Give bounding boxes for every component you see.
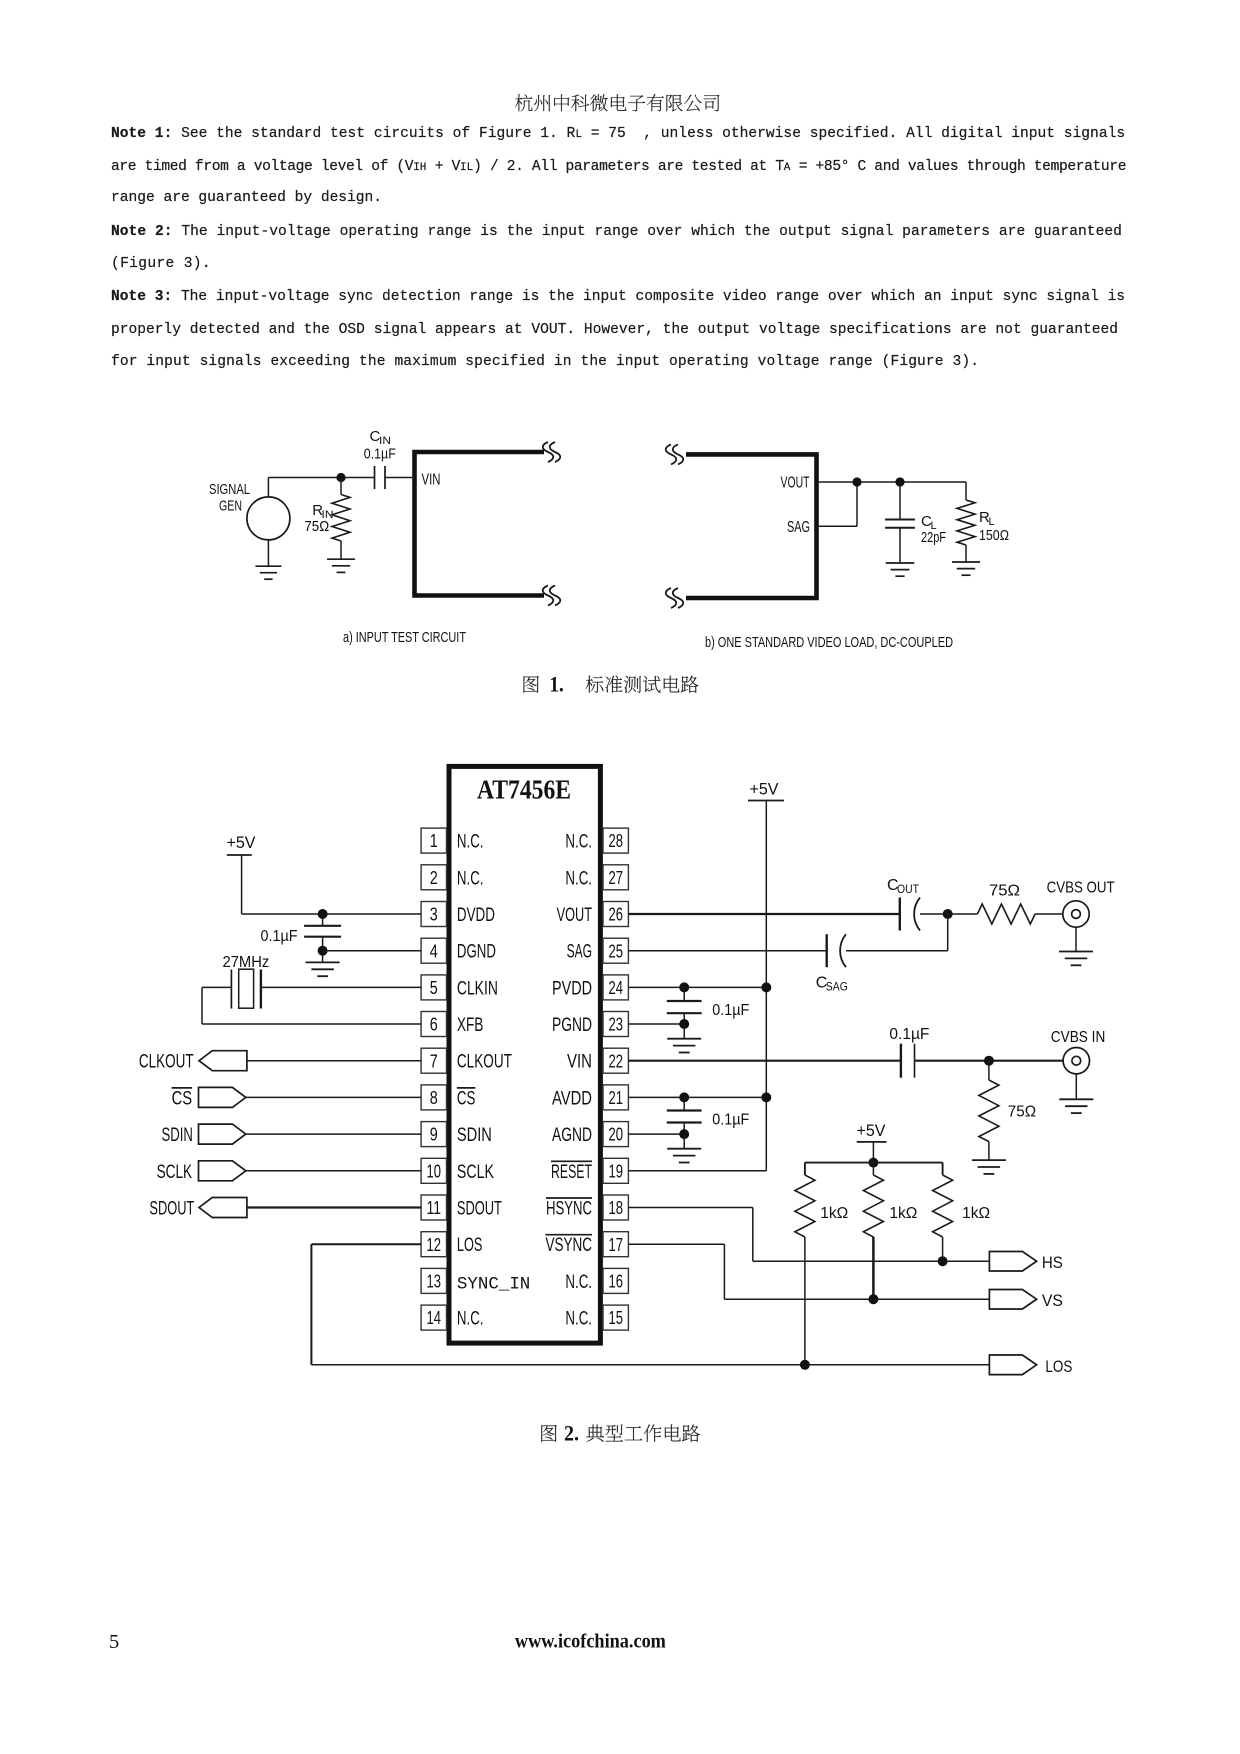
svg-text:SDIN: SDIN <box>457 1125 492 1146</box>
ground (AGND) <box>667 1134 701 1162</box>
svg-text:N.C.: N.C. <box>457 832 484 853</box>
figure 1 caption text <box>586 675 699 692</box>
svg-text:5: 5 <box>109 1631 119 1653</box>
power +5V (top right) <box>748 780 784 1171</box>
node VS junction <box>868 1294 878 1304</box>
ground (DGND decoupling) <box>306 951 340 977</box>
svg-text:SAG: SAG <box>567 942 592 963</box>
svg-text:75Ω: 75Ω <box>304 518 329 535</box>
svg-text:22: 22 <box>608 1050 623 1071</box>
label 1k ohm R3 <box>962 1205 990 1222</box>
svg-text:SAG: SAG <box>826 980 848 994</box>
figure 1 caption hanzi 图 <box>523 676 538 693</box>
IC outline (partial, test circuit b) <box>686 454 817 598</box>
svg-text:23: 23 <box>608 1014 623 1035</box>
pin 28 box <box>603 828 628 853</box>
ground (CL) <box>886 563 915 576</box>
wire SAG <box>819 482 857 526</box>
svg-text:2.: 2. <box>564 1421 579 1446</box>
pin 23 label PGND <box>552 1015 592 1036</box>
wire pin24 PVDD to +5V <box>628 986 766 988</box>
pin 24 box <box>603 975 628 1000</box>
svg-text:N.C.: N.C. <box>457 1309 484 1330</box>
wire pull-up rail <box>805 1163 943 1175</box>
svg-text:18: 18 <box>608 1197 623 1218</box>
svg-text:DVDD: DVDD <box>457 905 495 926</box>
svg-text:6: 6 <box>430 1014 438 1035</box>
pin 12 box <box>421 1232 446 1257</box>
figure 2 caption text <box>586 1424 700 1441</box>
label CLKOUT <box>139 1052 194 1073</box>
pin 6 label XFB <box>457 1015 484 1036</box>
node AVDD +5V rail junction <box>761 1092 771 1102</box>
pin 17 box <box>603 1232 628 1257</box>
svg-text:SAG: SAG <box>787 519 810 536</box>
svg-text:11: 11 <box>427 1197 442 1218</box>
svg-text:0.1µF: 0.1µF <box>261 928 298 945</box>
svg-text:14: 14 <box>427 1307 442 1328</box>
label CL 22pF <box>921 513 946 546</box>
pin 19 label RESET <box>551 1161 592 1183</box>
pin 2 box <box>421 865 446 890</box>
svg-text:AGND: AGND <box>552 1125 592 1146</box>
svg-text:1: 1 <box>430 830 438 851</box>
pin 20 box <box>603 1122 628 1147</box>
crystal X1 27MHz <box>223 954 270 1009</box>
wire pin20 AGND <box>628 1133 684 1135</box>
capacitor COUT <box>900 898 948 931</box>
IC U1 AT7456E body <box>449 766 600 1343</box>
svg-text:N.C.: N.C. <box>565 1309 592 1330</box>
svg-text:1kΩ: 1kΩ <box>962 1205 990 1222</box>
capacitor CSAG <box>827 914 948 967</box>
resistor R2 1k (VS pull-up) <box>863 1163 883 1300</box>
output arrow CLKOUT <box>199 1051 247 1071</box>
svg-text:26: 26 <box>608 904 623 925</box>
wire SCLK to pin10 <box>246 1170 421 1172</box>
label CIN 0.1uF <box>364 428 396 463</box>
wire pin18 HSYNC to HS <box>628 1208 989 1262</box>
capacitor 0.1uF (PVDD) <box>667 987 750 1024</box>
svg-text:5: 5 <box>430 977 438 998</box>
svg-text:VSYNC: VSYNC <box>546 1235 593 1256</box>
svg-text:19: 19 <box>608 1160 623 1181</box>
pin 19 box <box>603 1158 628 1183</box>
pin 26 label VOUT <box>557 905 593 926</box>
pin 4 label DGND <box>457 942 496 963</box>
pin 7 label CLKOUT <box>457 1052 512 1073</box>
label 1k ohm R2 <box>889 1205 917 1222</box>
svg-text:VS: VS <box>1042 1291 1063 1310</box>
node PVDD cap junction <box>679 982 689 992</box>
pin 26 box <box>603 902 628 927</box>
pin 13 label SYNC_IN <box>457 1274 530 1294</box>
ground (RL) <box>952 562 980 575</box>
connector CVBS OUT <box>1063 901 1089 927</box>
svg-text:VOUT: VOUT <box>557 905 593 926</box>
svg-text:N.C.: N.C. <box>565 868 592 889</box>
node RIN junction <box>336 473 345 482</box>
svg-text:0.1µF: 0.1µF <box>712 1112 749 1129</box>
pin 9 box <box>421 1122 446 1147</box>
svg-text:SDIN: SDIN <box>162 1125 193 1146</box>
resistor R1 1k (LOS pull-up) <box>795 1175 815 1365</box>
wire pin26 VOUT (bold) <box>628 913 899 915</box>
svg-text:22pF: 22pF <box>921 529 946 546</box>
svg-text:N.C.: N.C. <box>457 868 484 889</box>
svg-text:27: 27 <box>608 867 623 888</box>
svg-text:1.: 1. <box>549 672 564 697</box>
capacitor 0.1uF (AVDD) <box>667 1097 750 1134</box>
svg-text:2: 2 <box>430 867 438 888</box>
capacitor CL 22pF <box>885 482 915 563</box>
resistor 75ohm (output) <box>948 904 1063 924</box>
wire pin22 VIN (bold) <box>628 1060 901 1062</box>
break squiggle bottom a <box>543 586 561 606</box>
node pull-up rail junction <box>868 1158 878 1168</box>
svg-text:LOS: LOS <box>1045 1357 1072 1376</box>
page number <box>100 1625 160 1665</box>
output arrow SDOUT <box>199 1198 247 1218</box>
svg-text:+5V: +5V <box>227 833 257 852</box>
svg-text:AT7456E: AT7456E <box>477 775 571 805</box>
svg-text:b) ONE STANDARD VIDEO LOAD, DC: b) ONE STANDARD VIDEO LOAD, DC-COUPLED <box>705 634 953 651</box>
signal generator source <box>247 497 290 540</box>
svg-text:CS: CS <box>457 1088 476 1109</box>
label 75 ohm (input) <box>1008 1104 1036 1121</box>
svg-text:13: 13 <box>427 1271 442 1292</box>
break squiggle top b <box>666 444 684 464</box>
svg-text:4: 4 <box>430 940 438 961</box>
resistor RL 150ohm <box>957 482 975 562</box>
output arrow LOS <box>989 1355 1072 1376</box>
svg-text:3: 3 <box>430 904 438 925</box>
svg-text:CLKOUT: CLKOUT <box>139 1052 194 1073</box>
svg-text:RESET: RESET <box>551 1162 592 1183</box>
pin 21 label AVDD <box>552 1088 592 1109</box>
connector CVBS IN <box>1063 1048 1089 1074</box>
break squiggle bottom b <box>666 588 684 608</box>
wire pin21 AVDD to +5V <box>628 1096 766 1098</box>
pin 5 label CLKIN <box>457 978 498 999</box>
pin 25 box <box>603 938 628 963</box>
pin 18 box <box>603 1195 628 1220</box>
svg-text:www.icofchina.com: www.icofchina.com <box>515 1631 666 1653</box>
pin 15 label N.C. <box>565 1309 592 1330</box>
svg-text:DGND: DGND <box>457 942 496 963</box>
pin 7 box <box>421 1048 446 1073</box>
node LOS junction <box>800 1360 810 1370</box>
svg-text:12: 12 <box>427 1234 442 1255</box>
page header company name (hanzi svg) <box>0 0 1240 140</box>
wire VOUT <box>819 481 966 483</box>
svg-text:PGND: PGND <box>552 1015 592 1036</box>
node PVDD +5V rail junction <box>761 982 771 992</box>
node PGND junction <box>679 1019 689 1029</box>
ground (RIN) <box>327 559 355 572</box>
pin 24 label PVDD <box>552 978 592 999</box>
label CS (active low) <box>172 1088 193 1110</box>
svg-text:9: 9 <box>430 1124 438 1145</box>
pin 23 box <box>603 1012 628 1037</box>
pin 16 label N.C. <box>565 1272 592 1293</box>
node AVDD cap junction <box>679 1092 689 1102</box>
label 75 ohm <box>989 883 1020 900</box>
svg-text:75Ω: 75Ω <box>1008 1104 1036 1121</box>
figure 1 schematic <box>150 420 1090 660</box>
pin 25 label SAG <box>567 942 592 963</box>
wire pin19 RESET to +5V rail <box>628 1170 766 1172</box>
ground (CVBS IN) <box>1059 1074 1093 1113</box>
svg-text:150Ω: 150Ω <box>979 527 1009 544</box>
wire CS to pin8 <box>246 1096 421 1098</box>
output arrow HS <box>989 1252 1063 1273</box>
svg-text:CLKIN: CLKIN <box>457 978 498 999</box>
svg-text:1kΩ: 1kΩ <box>889 1205 917 1222</box>
svg-text:SCLK: SCLK <box>457 1162 494 1183</box>
svg-text:8: 8 <box>430 1087 438 1108</box>
label VOUT pin <box>781 475 810 492</box>
pin 12 label LOS <box>457 1235 483 1256</box>
svg-text:20: 20 <box>608 1124 623 1145</box>
svg-text:15: 15 <box>608 1307 623 1328</box>
label RIN 75ohm <box>304 502 333 535</box>
svg-text:7: 7 <box>430 1050 438 1071</box>
break squiggle top a <box>543 442 561 462</box>
capacitor 0.1uF (DVDD-DGND) <box>261 914 342 951</box>
svg-text:SIGNAL: SIGNAL <box>209 481 250 498</box>
node SAG junction <box>852 477 861 486</box>
resistor RIN 75ohm <box>332 478 350 560</box>
resistor R3 1k (HS pull-up) <box>933 1175 953 1261</box>
wire crystal to pin5 CLKIN <box>261 986 421 988</box>
svg-text:HSYNC: HSYNC <box>546 1199 592 1220</box>
pin 9 label SDIN <box>457 1125 492 1146</box>
page header company name <box>515 94 719 111</box>
pin 14 label N.C. <box>457 1309 484 1330</box>
pin 3 box <box>421 902 446 927</box>
node DVDD junction <box>318 909 328 919</box>
svg-text:1kΩ: 1kΩ <box>820 1205 848 1222</box>
capacitor CIN <box>375 466 415 489</box>
svg-text:N.C.: N.C. <box>565 1272 592 1293</box>
footer url <box>505 1624 705 1664</box>
svg-text:VOUT: VOUT <box>781 475 810 492</box>
label 1k ohm R1 <box>820 1205 848 1222</box>
svg-text:AVDD: AVDD <box>552 1088 592 1109</box>
caption b <box>705 634 953 651</box>
wire crystal to pin6 XFB <box>202 987 421 1024</box>
svg-text:VIN: VIN <box>422 472 441 489</box>
ground (signal gen) <box>255 540 281 579</box>
pin 14 box <box>421 1305 446 1330</box>
wire CLKOUT to pin7 <box>247 1060 421 1062</box>
figure 2 caption hanzi 图 <box>541 1425 557 1442</box>
input arrow CS <box>199 1087 246 1107</box>
label SCLK <box>157 1162 193 1183</box>
IC outline (partial, test circuit a) <box>415 452 545 596</box>
svg-text:+5V: +5V <box>750 780 780 799</box>
pin 6 box <box>421 1012 446 1037</box>
svg-text:0.1µF: 0.1µF <box>364 446 396 463</box>
pin 5 box <box>421 975 446 1000</box>
svg-text:a) INPUT TEST CIRCUIT: a) INPUT TEST CIRCUIT <box>343 629 466 646</box>
pin 3 label DVDD <box>457 905 495 926</box>
wire SDIN to pin9 <box>246 1133 421 1135</box>
pin 10 label SCLK <box>457 1162 494 1183</box>
svg-text:HS: HS <box>1042 1253 1063 1272</box>
svg-text:SDOUT: SDOUT <box>457 1199 502 1220</box>
svg-text:SDOUT: SDOUT <box>149 1199 194 1220</box>
pin 20 label AGND <box>552 1125 592 1146</box>
svg-text:28: 28 <box>608 830 623 851</box>
pin 10 box <box>421 1158 446 1183</box>
label CVBS OUT <box>1047 880 1115 897</box>
wire DGND to pin4 <box>323 950 422 952</box>
svg-text:PVDD: PVDD <box>552 978 592 999</box>
pin 4 box <box>421 938 446 963</box>
wire +5V to pin3 DVDD <box>242 913 422 915</box>
output arrow VS <box>989 1290 1063 1311</box>
svg-text:0.1µF: 0.1µF <box>889 1026 929 1043</box>
pin 17 label VSYNC <box>546 1235 593 1257</box>
pin 11 box <box>421 1195 446 1220</box>
svg-text:21: 21 <box>608 1087 623 1108</box>
label CVBS IN <box>1051 1029 1106 1046</box>
svg-text:LOS: LOS <box>457 1235 483 1256</box>
svg-text:16: 16 <box>608 1271 623 1292</box>
pin 27 label N.C. <box>565 868 592 889</box>
svg-text:CVBS IN: CVBS IN <box>1051 1029 1106 1046</box>
ground (PGND) <box>667 1024 701 1053</box>
svg-text:17: 17 <box>608 1234 623 1255</box>
label SDIN <box>162 1125 193 1146</box>
node AGND junction <box>679 1129 689 1139</box>
wire pin17 VSYNC to VS <box>628 1244 989 1299</box>
pin 1 label N.C. <box>457 832 484 853</box>
svg-text:XFB: XFB <box>457 1015 484 1036</box>
label COUT <box>887 877 920 896</box>
svg-text:CS: CS <box>172 1088 193 1109</box>
caption a <box>343 629 466 646</box>
wire pin12 LOS down and across <box>311 1244 989 1365</box>
pin 27 box <box>603 865 628 890</box>
wire SDOUT to pin11 (bold) <box>247 1206 421 1208</box>
pin 16 box <box>603 1268 628 1293</box>
svg-text:SCLK: SCLK <box>157 1162 193 1183</box>
node HS junction <box>938 1256 948 1266</box>
svg-text:GEN: GEN <box>219 498 242 515</box>
wire signal gen to cap <box>268 478 374 497</box>
ground (CVBS OUT) <box>1059 927 1093 965</box>
power +5V (left) <box>227 833 257 914</box>
svg-text:CLKOUT: CLKOUT <box>457 1052 512 1073</box>
pin 11 label SDOUT <box>457 1199 502 1220</box>
pin 1 box <box>421 828 446 853</box>
label SDOUT <box>149 1199 194 1220</box>
wire pin25 SAG <box>628 950 826 952</box>
figure 2 caption <box>510 1410 750 1455</box>
node DGND junction <box>318 946 328 956</box>
pin 8 label CS <box>457 1088 476 1110</box>
pin 18 label HSYNC <box>546 1198 592 1220</box>
svg-text:24: 24 <box>608 977 623 998</box>
svg-text:75Ω: 75Ω <box>989 883 1020 900</box>
label VIN pin <box>422 472 441 489</box>
pin 28 label N.C. <box>565 832 592 853</box>
svg-text:SYNC_IN: SYNC_IN <box>457 1274 530 1294</box>
svg-text:VIN: VIN <box>567 1052 592 1073</box>
pin 13 box <box>421 1268 446 1293</box>
label CSAG <box>816 975 848 994</box>
node VOUT junction <box>943 909 953 919</box>
pin 2 label N.C. <box>457 868 484 889</box>
pin 22 box <box>603 1048 628 1073</box>
node CL junction <box>895 477 904 486</box>
ground (75ohm input) <box>972 1160 1006 1174</box>
node VIN junction <box>984 1056 994 1066</box>
svg-text:+5V: +5V <box>857 1121 887 1140</box>
input arrow SDIN <box>199 1124 246 1144</box>
svg-text:10: 10 <box>427 1160 442 1181</box>
svg-text:25: 25 <box>608 940 623 961</box>
resistor 75ohm (input termination) <box>979 1061 999 1160</box>
input arrow SCLK <box>199 1161 246 1181</box>
label SAG pin <box>787 519 810 536</box>
svg-text:CVBS OUT: CVBS OUT <box>1047 880 1115 897</box>
label SIGNAL GEN <box>209 481 250 515</box>
figure 2 schematic <box>130 750 1130 1390</box>
svg-text:OUT: OUT <box>897 882 920 896</box>
figure 1 caption <box>500 660 740 705</box>
svg-text:N.C.: N.C. <box>565 832 592 853</box>
label RL 150ohm <box>979 509 1009 544</box>
wire pin23 PGND <box>628 1023 684 1025</box>
pin 21 box <box>603 1085 628 1110</box>
pin 22 label VIN <box>567 1052 592 1073</box>
pin 15 box <box>603 1305 628 1330</box>
power +5V (pull-up rail) <box>857 1121 887 1163</box>
capacitor 0.1uF (VIN) <box>889 1026 1062 1078</box>
svg-text:0.1µF: 0.1µF <box>712 1002 749 1019</box>
pin 8 box <box>421 1085 446 1110</box>
